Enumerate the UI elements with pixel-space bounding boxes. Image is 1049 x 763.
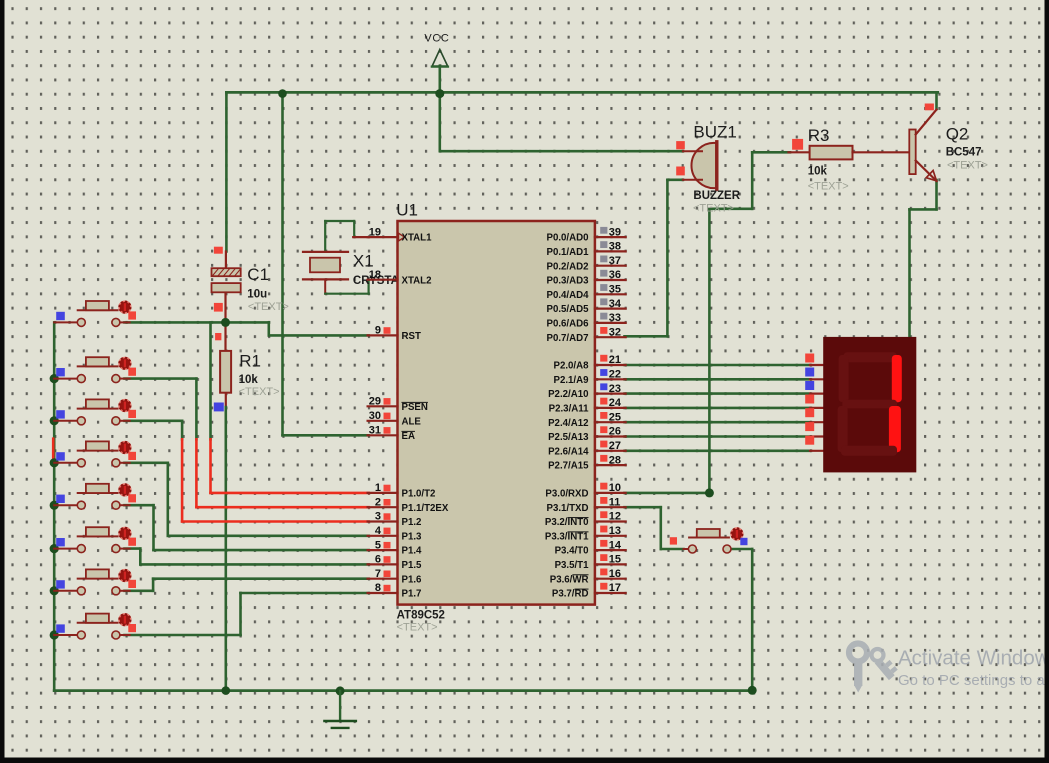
wire button8 row — [125, 634, 241, 637]
svg-text:10k: 10k — [239, 374, 259, 386]
pin 38 (P0.1/AD1) — [547, 241, 626, 258]
buzzer BUZ1 — [683, 142, 717, 189]
wire button8 riser — [239, 593, 242, 635]
svg-text:P0.3/AD3: P0.3/AD3 — [547, 276, 590, 287]
wire button2 drop — [195, 379, 198, 440]
svg-text:P1.0/T2: P1.0/T2 — [402, 489, 436, 500]
wire P2.1 to display — [625, 378, 811, 381]
wire top VCC rail — [226, 91, 937, 94]
svg-text:BUZZER: BUZZER — [693, 190, 740, 202]
display pin square 0 — [805, 354, 814, 363]
svg-text:38: 38 — [609, 241, 621, 253]
wire to P1.7 — [241, 592, 369, 595]
SW1 right pin square — [128, 311, 136, 319]
display pin lead 4 — [810, 421, 824, 423]
svg-text:P1.6: P1.6 — [402, 574, 423, 585]
wire C1 bottom lead — [224, 292, 226, 322]
pin 13 (P3.3/INT1) — [545, 525, 626, 542]
svg-text:31: 31 — [369, 425, 381, 437]
svg-text:15: 15 — [609, 554, 621, 566]
svg-text:P2.6/A14: P2.6/A14 — [548, 446, 589, 457]
svg-text:Go to PC settings to act: Go to PC settings to act — [898, 672, 1049, 689]
svg-text:P2.0/A8: P2.0/A8 — [553, 361, 589, 372]
svg-text:10: 10 — [609, 482, 621, 494]
pin 35 (P0.4/AD4) — [547, 284, 626, 301]
crystal X1 — [303, 221, 369, 294]
display pin square 2 — [805, 381, 814, 390]
display pin square 6 — [805, 436, 814, 445]
wire P3.1/TXD out — [625, 506, 661, 509]
display segments — [838, 352, 902, 455]
svg-text:30: 30 — [369, 410, 381, 422]
pin 1 (P1.0/T2) — [368, 482, 436, 499]
svg-text:P0.6/AD6: P0.6/AD6 — [547, 319, 590, 330]
wire rail down to Q2 collector — [935, 92, 938, 109]
pin 39 (P0.0/AD0) — [547, 226, 626, 243]
svg-text:P3.3/INT1: P3.3/INT1 — [545, 531, 589, 542]
svg-text:25: 25 — [609, 411, 621, 423]
svg-text:P1.5: P1.5 — [402, 560, 423, 571]
svg-text:21: 21 — [609, 354, 621, 366]
resistor R1 — [220, 351, 231, 393]
wire button6 drop — [139, 549, 142, 565]
svg-text:Activate Windows: Activate Windows — [898, 647, 1049, 670]
wire down to display anode — [908, 209, 911, 337]
svg-text:10k: 10k — [808, 166, 828, 178]
svg-text:36: 36 — [609, 269, 621, 281]
pin 32 (P0.7/AD7) — [547, 326, 626, 343]
svg-text:7: 7 — [375, 568, 381, 580]
wire button6 row — [125, 547, 141, 550]
svg-text:6: 6 — [375, 554, 381, 566]
svg-text:P2.7/A15: P2.7/A15 — [548, 461, 589, 472]
C1 bottom pin square — [214, 303, 223, 312]
svg-text:P0.0/AD0: P0.0/AD0 — [547, 233, 589, 244]
svg-text:P1.3: P1.3 — [402, 531, 423, 542]
wire button5 row — [125, 504, 154, 507]
pin 16 (P3.6/WR) — [550, 568, 626, 585]
svg-text:11: 11 — [609, 496, 621, 508]
svg-text:P0.2/AD2: P0.2/AD2 — [547, 261, 589, 272]
svg-text:P2.3/A11: P2.3/A11 — [549, 404, 589, 415]
pin 36 (P0.3/AD3) — [547, 269, 626, 286]
display pin square 3 — [805, 395, 814, 404]
pin 3 (P1.2) — [368, 511, 422, 528]
pin 28 (P2.7/A15) — [548, 454, 626, 471]
svg-text:2: 2 — [375, 496, 381, 508]
svg-text:BC547: BC547 — [946, 147, 982, 159]
svg-text:P2.4/A12: P2.4/A12 — [548, 418, 588, 429]
screen border bottom — [0, 758, 1049, 763]
svg-text:26: 26 — [609, 426, 621, 438]
SW7 right pin square — [128, 580, 136, 588]
pin 22 (P2.1/A9) — [553, 369, 625, 386]
wire R1 bottom lead — [225, 393, 227, 408]
button SW9 — [684, 527, 744, 553]
button SW8 — [54, 613, 131, 639]
wire Q2 emitter down — [935, 180, 938, 209]
svg-text:ALE: ALE — [402, 416, 422, 427]
svg-text:P3.0/RXD: P3.0/RXD — [545, 489, 588, 500]
pin 11 (P3.1/TXD) — [547, 496, 626, 513]
wire to P1.2 red — [182, 520, 369, 523]
junction SW9/ground rail — [748, 686, 757, 695]
svg-text:AT89C52: AT89C52 — [397, 610, 445, 622]
wire to EA pin — [283, 434, 369, 437]
svg-text:X1: X1 — [353, 252, 374, 271]
display pin square 4 — [805, 408, 814, 417]
display pin lead 3 — [810, 407, 824, 409]
capacitor C1 — [212, 268, 241, 292]
wire to P1.5 — [140, 563, 368, 566]
svg-text:3: 3 — [375, 511, 381, 523]
svg-text:<TEXT>: <TEXT> — [693, 203, 734, 215]
svg-text:R1: R1 — [239, 352, 261, 371]
svg-text:BUZ1: BUZ1 — [693, 123, 736, 142]
svg-text:33: 33 — [609, 312, 621, 324]
button SW2 — [54, 357, 131, 383]
svg-text:P3.6/WR: P3.6/WR — [550, 574, 589, 585]
wire bottom ground rail — [54, 689, 752, 692]
display pin lead 2 — [810, 393, 824, 395]
pin 18 (XTAL2) — [368, 269, 432, 286]
wire P2.5 to display — [625, 435, 811, 438]
SW8 right pin square — [128, 624, 136, 632]
wire VCC stem down — [438, 66, 441, 151]
svg-text:P0.4/AD4: P0.4/AD4 — [547, 290, 590, 301]
op-amp U1 body (AT89C52 MCU) — [398, 221, 595, 605]
SW2 right pin square — [128, 368, 136, 376]
wire P2.3 to display — [625, 407, 811, 410]
wire VCC to buzzer — [440, 150, 683, 153]
svg-text:<TEXT>: <TEXT> — [248, 301, 289, 313]
wire P2.6 to display — [625, 449, 811, 452]
svg-text:12: 12 — [609, 511, 621, 523]
SW3 left pin square — [56, 410, 65, 418]
SW4 left pin square — [56, 452, 65, 460]
SW3 right pin square — [128, 410, 136, 418]
pin 10 (P3.0/RXD) — [545, 482, 625, 499]
wire button4 row — [125, 461, 168, 464]
wire P3.0/RXD out — [625, 492, 710, 495]
pin 29 (PSEN) — [368, 396, 428, 413]
junction rail button3 — [50, 416, 59, 425]
junction rail button2 — [50, 374, 59, 383]
screen border right — [1045, 0, 1049, 763]
svg-text:PSEN: PSEN — [402, 402, 428, 413]
wire left button common rail — [53, 322, 56, 690]
svg-text:RST: RST — [402, 331, 421, 342]
pin 34 (P0.5/AD5) — [547, 298, 626, 315]
svg-text:22: 22 — [609, 369, 621, 381]
wire to SW9 — [661, 548, 684, 551]
pin 25 (P2.4/A12) — [548, 411, 626, 428]
wire SW9 down to ground rail — [751, 549, 754, 691]
wire button1 row — [125, 321, 269, 324]
svg-text:P1.4: P1.4 — [402, 546, 423, 557]
svg-text:XTAL1: XTAL1 — [402, 233, 433, 244]
button SW7 — [54, 569, 131, 595]
wire button5 drop — [152, 505, 155, 550]
junction rail button4 — [50, 458, 59, 467]
pin 27 (P2.6/A14) — [548, 440, 626, 457]
svg-text:<TEXT>: <TEXT> — [947, 160, 988, 172]
SW4 right pin square — [128, 452, 136, 460]
svg-text:VCC: VCC — [424, 33, 449, 45]
svg-text:P0.5/AD5: P0.5/AD5 — [547, 304, 590, 315]
svg-text:XTAL2: XTAL2 — [402, 275, 432, 286]
svg-text:EA: EA — [402, 431, 415, 442]
wire C1 top lead — [225, 252, 227, 269]
pin 8 (P1.7) — [368, 582, 422, 599]
button SW1 — [54, 301, 131, 327]
pin 24 (P2.3/A11) — [549, 397, 626, 414]
svg-text:8: 8 — [375, 582, 381, 594]
wire button2 row — [125, 377, 197, 380]
wire to P1.1 red — [196, 506, 368, 509]
display pin square 5 — [805, 422, 814, 431]
svg-text:P2.1/A9: P2.1/A9 — [553, 375, 589, 386]
pin 14 (P3.4/T0) — [555, 539, 626, 556]
wire into R3 left — [752, 151, 790, 154]
C1 top pin square — [214, 247, 223, 254]
Activate Windows watermark — [849, 644, 1049, 693]
SW5 right pin square — [128, 494, 136, 502]
svg-text:10u: 10u — [247, 289, 267, 301]
wire button1 drop — [209, 322, 212, 439]
pin 5 (P1.4) — [368, 539, 422, 556]
svg-text:32: 32 — [609, 326, 621, 338]
svg-text:1: 1 — [375, 482, 381, 494]
svg-text:14: 14 — [609, 539, 622, 551]
display pin lead 5 — [810, 435, 824, 437]
svg-text:23: 23 — [609, 383, 621, 395]
svg-text:P1.7: P1.7 — [402, 589, 422, 600]
wire to P1.4 — [154, 549, 369, 552]
wire to P1.6 — [153, 577, 369, 580]
svg-text:P3.2/INT0: P3.2/INT0 — [545, 517, 589, 528]
wire button7 riser — [152, 579, 155, 591]
button SW5 — [54, 483, 131, 509]
svg-text:37: 37 — [609, 255, 621, 267]
wire up to R3 — [751, 152, 754, 209]
junction rail button8 — [50, 630, 59, 639]
svg-text:P1.2: P1.2 — [402, 517, 422, 528]
svg-text:29: 29 — [369, 396, 381, 408]
pin 17 (P3.7/RD) — [552, 582, 626, 599]
wire button3 drop — [181, 421, 184, 440]
pin 31 (EA) — [368, 425, 415, 442]
SW1 left pin square — [56, 312, 65, 320]
wire to RST pin — [269, 334, 369, 337]
junction rail button7 — [50, 586, 59, 595]
junction P3.0 node — [705, 488, 714, 497]
wire VCC rail down to C1 — [225, 94, 228, 252]
svg-text:<TEXT>: <TEXT> — [239, 386, 280, 398]
svg-text:P3.7/RD: P3.7/RD — [552, 589, 589, 600]
junction rail button5 — [50, 501, 59, 510]
junction EA/VCC rail — [278, 89, 287, 98]
svg-text:4: 4 — [375, 525, 382, 537]
svg-text:Q2: Q2 — [946, 125, 969, 144]
Q2 collector pin square — [925, 104, 934, 111]
pin 6 (P1.5) — [368, 554, 422, 571]
resistor R3 — [789, 151, 810, 153]
pin 23 (P2.2/A10) — [548, 383, 626, 400]
junction ground symbol — [336, 686, 345, 695]
svg-text:P3.4/T0: P3.4/T0 — [555, 546, 589, 557]
wire EA pullup vertical — [281, 94, 284, 436]
pin 21 (P2.0/A8) — [553, 354, 625, 371]
wire button7 row — [125, 589, 154, 592]
BUZ1 top pin square — [676, 141, 685, 149]
wire P2.2 to display — [625, 392, 811, 395]
button SW4 — [54, 441, 131, 467]
wire R1 to ground rail — [225, 407, 228, 691]
wire buzzer low lead out — [667, 179, 683, 182]
svg-text:P2.2/A10: P2.2/A10 — [548, 389, 588, 400]
svg-text:P3.5/T1: P3.5/T1 — [555, 560, 590, 571]
wire button1 drop red — [209, 439, 212, 493]
pin 4 (P1.3) — [368, 525, 422, 542]
wire to P0.7 — [625, 335, 668, 338]
wire down — [659, 507, 662, 549]
svg-text:C1: C1 — [247, 265, 269, 284]
pin 2 (P1.1/T2EX) — [368, 496, 449, 513]
junction R1/ground rail — [222, 686, 231, 695]
svg-text:16: 16 — [609, 568, 621, 580]
wire button3 drop red — [181, 439, 184, 521]
svg-text:24: 24 — [609, 397, 622, 409]
svg-text:R3: R3 — [808, 126, 830, 145]
wire to P1.3 — [168, 534, 369, 537]
ground symbol — [325, 691, 356, 728]
wire elbow left — [910, 208, 937, 211]
7-segment display body — [823, 337, 916, 473]
junction rail button6 — [50, 544, 59, 553]
svg-text:27: 27 — [609, 440, 621, 452]
svg-text:5: 5 — [375, 539, 381, 551]
wire button2 drop red — [195, 439, 198, 507]
display pin lead 1 — [810, 378, 824, 380]
wire to P1.0 red — [211, 492, 369, 495]
SW6 left pin square — [56, 538, 65, 546]
SW7 left pin square — [56, 580, 65, 588]
display pin square 1 — [805, 368, 814, 377]
svg-text:18: 18 — [369, 269, 381, 281]
svg-text:35: 35 — [609, 284, 621, 296]
svg-text:28: 28 — [609, 454, 621, 466]
pin 37 (P0.2/AD2) — [547, 255, 626, 272]
wire button4 drop — [167, 463, 170, 536]
R1 top pin square — [215, 333, 221, 340]
wire buzzer down — [666, 180, 669, 336]
wire vertical to R3 — [708, 209, 711, 493]
pin 9 (RST) — [368, 325, 421, 342]
svg-text:34: 34 — [609, 298, 622, 310]
wire SW9 to ground drop — [731, 548, 752, 551]
wire R1 top lead — [224, 322, 226, 351]
screen border left — [0, 0, 5, 763]
pin 26 (P2.5/A13) — [548, 426, 626, 443]
SW9 right pin square — [740, 538, 747, 545]
svg-text:<TEXT>: <TEXT> — [808, 181, 849, 193]
pin 33 (P0.6/AD6) — [547, 312, 626, 329]
button SW3 — [54, 399, 131, 425]
transistor Q2 BC547 — [909, 110, 936, 182]
pin 15 (P3.5/T1) — [555, 554, 626, 571]
wire P2.0 to display — [625, 364, 811, 367]
display pin lead 6 — [810, 450, 824, 452]
R1 bottom pin square — [214, 403, 224, 412]
U1 clock arrow XTAL1 — [399, 233, 405, 241]
pin 19 (XTAL1) — [368, 226, 432, 243]
pin 7 (P1.6) — [368, 568, 422, 585]
svg-text:19: 19 — [369, 226, 381, 238]
svg-text:U1: U1 — [396, 201, 418, 220]
button SW6 — [54, 527, 131, 553]
svg-text:P0.7/AD7: P0.7/AD7 — [547, 333, 589, 344]
wire P2.4 to display — [625, 421, 811, 424]
svg-text:9: 9 — [375, 325, 381, 337]
wire red segment on rail — [52, 439, 55, 463]
svg-text:P1.1/T2EX: P1.1/T2EX — [402, 503, 449, 514]
wire button3 row — [125, 419, 183, 422]
svg-text:<TEXT>: <TEXT> — [397, 622, 438, 634]
svg-text:13: 13 — [609, 525, 621, 537]
svg-text:39: 39 — [609, 226, 621, 238]
svg-text:P3.1/TXD: P3.1/TXD — [547, 503, 589, 514]
power symbol VCC — [432, 50, 448, 67]
SW6 right pin square — [128, 538, 136, 546]
R3 left pin square — [792, 139, 803, 150]
wire RST elbow — [267, 322, 270, 335]
svg-text:17: 17 — [609, 582, 621, 594]
SW8 left pin square — [56, 624, 65, 632]
BUZ1 bottom pin square — [676, 167, 685, 176]
junction VCC stem — [435, 89, 444, 98]
svg-text:P0.1/AD1: P0.1/AD1 — [547, 247, 590, 258]
svg-text:P2.5/A13: P2.5/A13 — [548, 432, 589, 443]
SW2 left pin square — [56, 368, 65, 376]
display pin lead 0 — [810, 364, 824, 366]
SW9 left pin square — [670, 537, 677, 544]
pin 30 (ALE) — [368, 410, 422, 427]
pin 12 (P3.2/INT0) — [545, 511, 626, 528]
wire elbow — [709, 208, 752, 211]
SW5 left pin square — [56, 495, 65, 503]
junction RST node — [221, 318, 230, 327]
